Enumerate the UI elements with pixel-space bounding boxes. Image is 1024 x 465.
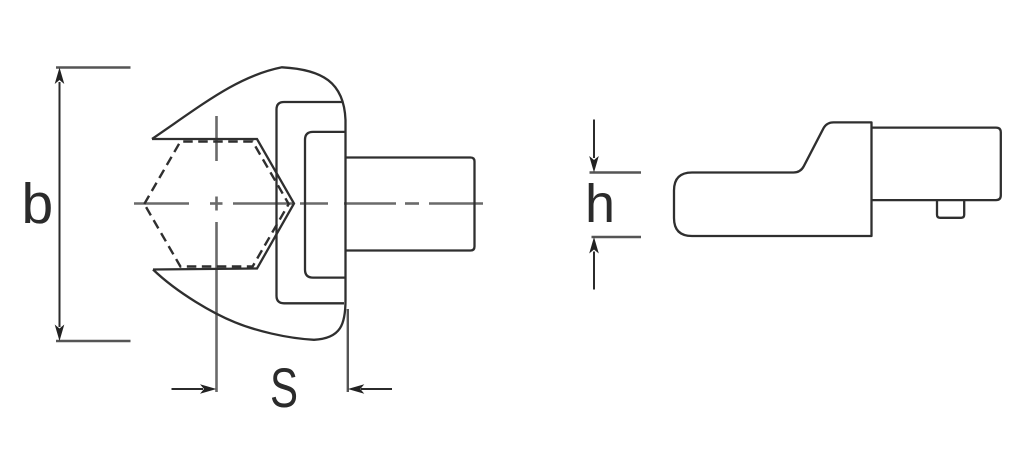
node: dimension b arrow line xyxy=(59,82,61,327)
node: dimension b arrowhead top xyxy=(55,68,65,85)
node: dimension h top arrow xyxy=(593,120,595,159)
node: dimension b extension lines xyxy=(56,68,131,342)
svg-text:b: b xyxy=(22,172,54,236)
node: outer rounded slot xyxy=(277,102,345,303)
node: dimension h bottom arrow xyxy=(593,252,595,290)
node: side-view locking pin tab xyxy=(937,200,964,218)
node: jaw mouth faces xyxy=(152,139,294,270)
node: dimension S right arrowhead xyxy=(348,384,365,394)
node: dimension S right extension line xyxy=(347,309,349,392)
node: shaft of head view xyxy=(346,158,475,251)
wire: vertical centerline of head view xyxy=(215,116,218,392)
wire: horizontal centerline of head view xyxy=(134,202,483,205)
node: dimension S left arrow line xyxy=(172,388,204,390)
hexagon nut (dashed) xyxy=(144,142,288,267)
node: wrench-head body outline xyxy=(152,67,346,340)
node: side-view square drive shank xyxy=(872,128,1001,201)
node: dimension S right arrow line xyxy=(361,388,392,390)
node: dimension b arrowhead bottom xyxy=(55,325,65,342)
svg-text:h: h xyxy=(585,174,615,234)
node: dimension S left arrowhead xyxy=(200,384,217,394)
node: dimension h extension lines xyxy=(590,173,642,238)
node: side-view holder body xyxy=(674,122,872,236)
node: inner rounded slot xyxy=(305,132,346,278)
svg-text:S: S xyxy=(270,357,298,419)
